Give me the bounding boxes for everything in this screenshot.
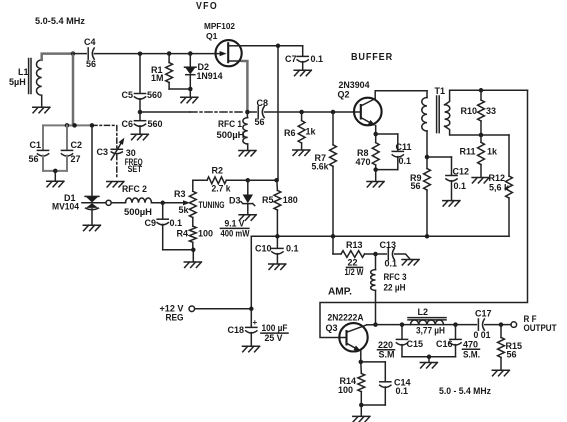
capacitor C6 bbox=[139, 112, 141, 120]
ground below RFC1 bbox=[239, 151, 256, 157]
node D2 top bbox=[188, 51, 193, 56]
svg-text:Q3: Q3 bbox=[326, 323, 338, 333]
resistor R5 bbox=[276, 180, 279, 190]
ground below R6 bbox=[293, 150, 310, 156]
wire to R5 line bbox=[248, 179, 276, 181]
svg-text:C15: C15 bbox=[407, 339, 424, 349]
wire +12V rail bbox=[251, 235, 509, 237]
svg-text:5,6 k: 5,6 k bbox=[489, 183, 510, 193]
ground below C10 bbox=[269, 264, 286, 270]
terminal RF OUTPUT bbox=[511, 322, 517, 328]
ground below R15 bbox=[492, 370, 509, 376]
svg-text:C7: C7 bbox=[285, 54, 297, 64]
resistor R15 bbox=[500, 325, 502, 338]
capacitor C7 bbox=[302, 46, 304, 56]
svg-text:C12: C12 bbox=[453, 167, 470, 177]
node R2-D3 junction bbox=[246, 178, 251, 183]
node D2 bottom bbox=[188, 87, 193, 92]
svg-text:100: 100 bbox=[338, 385, 353, 395]
svg-text:56: 56 bbox=[86, 59, 96, 69]
inductor RFC1 bbox=[246, 112, 248, 118]
ground below R4 bbox=[192, 250, 194, 262]
svg-text:S.M.: S.M. bbox=[463, 350, 480, 360]
node R13-RFC3 bbox=[373, 252, 378, 257]
svg-text:0 01: 0 01 bbox=[474, 330, 491, 340]
svg-text:R11: R11 bbox=[460, 147, 476, 157]
svg-text:3,77 µH: 3,77 µH bbox=[416, 326, 445, 336]
node tank junction C2 bbox=[65, 123, 70, 128]
node C5 top bbox=[138, 51, 143, 56]
ground below L1 bbox=[33, 107, 50, 113]
capacitor C13 bbox=[376, 253, 387, 255]
svg-text:56: 56 bbox=[255, 117, 265, 127]
wire Q1 drain bbox=[240, 45, 303, 47]
svg-text:MV104: MV104 bbox=[52, 202, 79, 212]
svg-text:SET: SET bbox=[128, 164, 142, 174]
capacitor C17 bbox=[477, 319, 479, 330]
node T1 secondary bottom bbox=[479, 133, 484, 138]
node R14 bottom bbox=[359, 403, 364, 408]
node R4 bottom bbox=[191, 248, 196, 253]
wire R1-D2 bottom bbox=[169, 88, 190, 90]
svg-text:R10: R10 bbox=[461, 106, 478, 116]
svg-text:220: 220 bbox=[378, 340, 393, 350]
capacitor C12 bbox=[427, 156, 452, 158]
ground at C13 bbox=[402, 260, 419, 266]
svg-text:0.1: 0.1 bbox=[170, 218, 183, 228]
node rail C10 bbox=[275, 234, 280, 239]
node R5 top bbox=[274, 178, 279, 183]
node Q3 collector bbox=[373, 322, 378, 327]
svg-text:RFC 2: RFC 2 bbox=[122, 184, 147, 194]
svg-text:470: 470 bbox=[463, 340, 478, 350]
wire drain to R5 vertical bbox=[277, 46, 279, 180]
ground below C6 bbox=[131, 134, 148, 140]
svg-text:D3: D3 bbox=[229, 196, 241, 206]
svg-text:OUTPUT: OUTPUT bbox=[524, 323, 557, 333]
ground below C1 C2 bbox=[54, 171, 56, 181]
svg-text:C3: C3 bbox=[97, 147, 109, 157]
svg-text:100: 100 bbox=[198, 229, 213, 239]
node Q3 emitter junction bbox=[359, 360, 364, 365]
node R6 top bbox=[299, 110, 304, 115]
capacitor C5 bbox=[139, 54, 141, 93]
svg-text:T1: T1 bbox=[435, 86, 446, 96]
node R1 top bbox=[167, 51, 172, 56]
node L2 left bbox=[400, 322, 405, 327]
svg-text:Q1: Q1 bbox=[206, 31, 218, 41]
svg-text:REG: REG bbox=[166, 313, 184, 323]
svg-text:C8: C8 bbox=[257, 98, 269, 108]
wire Q3 base loop bbox=[320, 90, 528, 337]
wire dashed to C3 bbox=[92, 125, 117, 148]
node C5-C6 junction bbox=[138, 110, 143, 115]
svg-text:1k: 1k bbox=[306, 127, 317, 137]
svg-text:R5: R5 bbox=[262, 195, 274, 205]
svg-text:R6: R6 bbox=[284, 128, 296, 138]
capacitor C10 bbox=[276, 236, 278, 247]
svg-text:R2: R2 bbox=[212, 166, 224, 176]
varactor D1 MV104 bbox=[91, 125, 93, 196]
ground below C12 bbox=[443, 201, 460, 207]
node drain-R5 bbox=[276, 44, 281, 49]
svg-text:+: + bbox=[253, 318, 258, 327]
svg-text:R4: R4 bbox=[177, 229, 189, 239]
ground below C18 bbox=[243, 346, 260, 352]
svg-text:1k: 1k bbox=[487, 147, 498, 157]
svg-text:2N3904: 2N3904 bbox=[339, 80, 370, 90]
resistor R10 bbox=[480, 90, 482, 100]
svg-text:5.6k: 5.6k bbox=[312, 162, 330, 172]
svg-text:Q2: Q2 bbox=[338, 90, 350, 100]
wire +12V feed bbox=[250, 236, 252, 308]
inductor RFC3 bbox=[375, 254, 377, 270]
node C1C2 bottom bbox=[53, 169, 58, 174]
potentiometer R3 TUNING bbox=[193, 180, 207, 191]
svg-text:27: 27 bbox=[71, 154, 81, 164]
capacitor C18 bbox=[250, 309, 252, 327]
svg-text:RFC 1: RFC 1 bbox=[218, 119, 242, 129]
svg-text:R3: R3 bbox=[174, 189, 186, 199]
resistor R12 bbox=[508, 135, 510, 176]
svg-text:560: 560 bbox=[147, 90, 162, 100]
svg-text:TUNING: TUNING bbox=[199, 200, 225, 210]
svg-text:C5: C5 bbox=[122, 90, 134, 100]
svg-text:C9: C9 bbox=[145, 218, 157, 228]
svg-text:VFO: VFO bbox=[196, 1, 218, 12]
svg-text:1M: 1M bbox=[151, 73, 164, 83]
node L1 top junction bbox=[71, 51, 76, 56]
svg-text:5.0-5.4 MHz: 5.0-5.4 MHz bbox=[35, 16, 85, 26]
svg-text:C11: C11 bbox=[396, 142, 412, 152]
svg-text:400 mW: 400 mW bbox=[221, 229, 250, 239]
svg-text:0.1: 0.1 bbox=[454, 181, 467, 191]
node Q2 emitter junction bbox=[373, 132, 378, 137]
svg-text:C4: C4 bbox=[84, 37, 96, 47]
svg-text:56: 56 bbox=[411, 181, 421, 191]
ground below D3 bbox=[239, 215, 256, 221]
node filter ground bbox=[427, 355, 432, 360]
svg-text:S.M: S.M bbox=[379, 350, 395, 360]
resistor R4 bbox=[192, 218, 194, 227]
svg-text:500µH: 500µH bbox=[124, 207, 152, 217]
resistor R14 bbox=[360, 362, 363, 374]
node wiper-C9 junction bbox=[160, 201, 165, 206]
capacitor C14 bbox=[361, 361, 386, 363]
node tuning feedthrough circle bbox=[106, 200, 111, 205]
svg-text:2N2222A: 2N2222A bbox=[328, 313, 364, 323]
svg-text:470: 470 bbox=[356, 157, 371, 167]
zener D3 bbox=[247, 180, 249, 194]
svg-text:22: 22 bbox=[348, 258, 358, 268]
svg-text:560: 560 bbox=[148, 119, 163, 129]
svg-text:R12: R12 bbox=[489, 173, 506, 183]
ground below R8 bbox=[375, 170, 377, 181]
svg-text:C10: C10 bbox=[255, 244, 272, 254]
svg-text:C1: C1 bbox=[30, 140, 42, 150]
capacitor C1 bbox=[42, 125, 44, 149]
wire collector line bbox=[376, 324, 477, 326]
resistor R11 bbox=[480, 135, 482, 142]
resistor R7 bbox=[332, 112, 334, 145]
ground below R11 bbox=[472, 178, 489, 184]
capacitor C8 bbox=[247, 111, 256, 113]
svg-text:22 µH: 22 µH bbox=[384, 283, 406, 293]
ground below C7 bbox=[294, 70, 311, 76]
svg-text:5.0 - 5.4 MHz: 5.0 - 5.4 MHz bbox=[439, 386, 491, 396]
ground below D1 bbox=[83, 225, 100, 231]
wire filter bottom bbox=[402, 356, 456, 358]
svg-text:RFC 3: RFC 3 bbox=[384, 272, 407, 282]
diode D2 bbox=[189, 54, 191, 68]
svg-text:1/2 W: 1/2 W bbox=[345, 267, 364, 277]
node rail R9 bbox=[425, 234, 430, 239]
wire source line left faded bbox=[140, 111, 190, 113]
svg-text:BUFFER: BUFFER bbox=[351, 51, 393, 63]
resistor R9 bbox=[424, 169, 431, 191]
capacitor C16 bbox=[455, 325, 457, 339]
capacitor C11 bbox=[376, 133, 398, 135]
svg-text:56: 56 bbox=[507, 350, 517, 360]
node D1 branch bbox=[90, 123, 95, 128]
svg-text:100 µF: 100 µF bbox=[262, 323, 288, 333]
resistor R8 bbox=[375, 134, 377, 143]
svg-text:0.1: 0.1 bbox=[385, 259, 398, 269]
node rail R13 bbox=[331, 234, 336, 239]
svg-text:0.1: 0.1 bbox=[399, 156, 412, 166]
wire tank vertical bbox=[72, 54, 75, 126]
svg-text:C13: C13 bbox=[380, 240, 397, 250]
svg-text:33: 33 bbox=[486, 106, 496, 116]
capacitor C9 bbox=[162, 203, 164, 218]
resistor R1 bbox=[168, 54, 170, 63]
ground below filter bbox=[420, 363, 437, 369]
svg-text:25 V: 25 V bbox=[265, 333, 283, 343]
svg-text:0.1: 0.1 bbox=[396, 386, 409, 396]
node R8 bottom bbox=[373, 167, 378, 172]
resistor R6 bbox=[301, 112, 303, 121]
svg-text:180: 180 bbox=[283, 195, 298, 205]
svg-text:5µH: 5µH bbox=[9, 77, 26, 87]
svg-text:L1: L1 bbox=[18, 67, 29, 77]
wire C9 bottom to R4 bbox=[163, 249, 194, 251]
terminal +12V bbox=[189, 306, 195, 312]
capacitor C3 trimmer bbox=[111, 148, 122, 150]
node T1 primary bottom bbox=[425, 155, 430, 160]
node T1 secondary top R10 bbox=[479, 88, 484, 93]
svg-text:L2: L2 bbox=[418, 307, 429, 317]
node R7 top bbox=[331, 110, 336, 115]
svg-text:C2: C2 bbox=[71, 140, 83, 150]
svg-text:C18: C18 bbox=[228, 325, 245, 335]
inductor L1 bbox=[37, 60, 42, 95]
wire tank horizontal bbox=[43, 124, 92, 126]
node L2 right bbox=[453, 322, 458, 327]
ground below D2 bbox=[189, 89, 191, 97]
svg-text:MPF102: MPF102 bbox=[204, 21, 235, 31]
resistor R13 bbox=[332, 236, 334, 254]
wire dashed C3 to ground bbox=[116, 155, 118, 179]
svg-text:R13: R13 bbox=[346, 240, 363, 250]
capacitor C4 bbox=[73, 53, 86, 55]
svg-text:AMP.: AMP. bbox=[328, 286, 352, 298]
wire Q1 source down bbox=[242, 61, 247, 112]
svg-text:9.1 V: 9.1 V bbox=[225, 219, 245, 229]
svg-text:C16: C16 bbox=[436, 339, 453, 349]
svg-text:56: 56 bbox=[29, 154, 39, 164]
capacitor C2 bbox=[66, 125, 68, 149]
wire RFC2 to pot wiper bbox=[152, 202, 184, 204]
ground below C3 bbox=[107, 182, 124, 188]
wire gate line bbox=[94, 53, 221, 55]
svg-text:C17: C17 bbox=[475, 309, 492, 319]
ground below R14 bbox=[360, 405, 362, 416]
node tank junction main bbox=[72, 123, 77, 128]
inductor RFC2 bbox=[111, 202, 125, 204]
svg-text:2.7 k: 2.7 k bbox=[212, 184, 232, 194]
svg-text:5k: 5k bbox=[179, 205, 190, 215]
svg-text:500µH: 500µH bbox=[217, 130, 245, 140]
resistor R2 bbox=[207, 177, 226, 184]
node C18 junction bbox=[249, 307, 254, 312]
wire C1-C2 bottom bbox=[43, 170, 67, 172]
svg-text:0.1: 0.1 bbox=[286, 244, 299, 254]
svg-text:0.1: 0.1 bbox=[311, 54, 324, 64]
capacitor C15 bbox=[401, 325, 403, 339]
node output junction bbox=[499, 322, 504, 327]
svg-text:C6: C6 bbox=[122, 119, 134, 129]
node Q1 source junction bbox=[245, 110, 250, 115]
svg-text:1N914: 1N914 bbox=[197, 71, 223, 81]
